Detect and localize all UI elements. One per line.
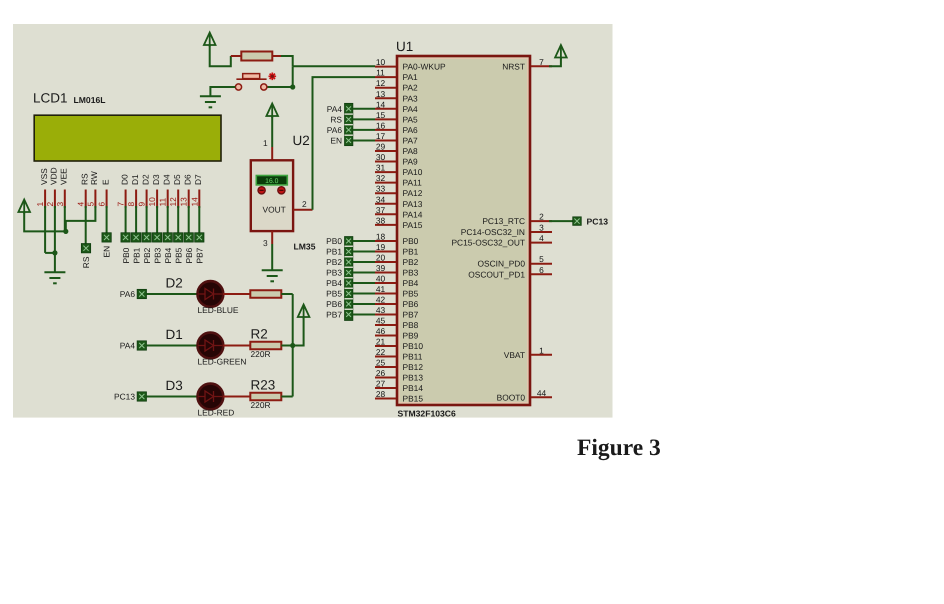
svg-text:LED-BLUE: LED-BLUE (198, 305, 239, 315)
wire arrow to VEE junction (24, 212, 66, 231)
value 220R (251, 349, 271, 359)
svg-text:38: 38 (376, 215, 386, 225)
svg-text:31: 31 (376, 163, 386, 173)
U1 pin 18 PB0 (375, 232, 419, 247)
svg-text:7: 7 (116, 202, 126, 207)
svg-text:PB6: PB6 (184, 247, 194, 263)
wire D2 down (146, 206, 148, 233)
svg-text:PA6: PA6 (327, 125, 343, 135)
svg-text:16.0: 16.0 (265, 178, 278, 185)
wire D0 down (125, 206, 127, 233)
wire VEE down (64, 206, 66, 231)
label R2 (251, 327, 268, 342)
svg-text:1: 1 (35, 202, 45, 207)
wire PB7 to U1 (353, 314, 375, 316)
svg-text:PB7: PB7 (403, 310, 419, 320)
power arrow VDD (LCD) (18, 200, 30, 215)
wire PA0 net to U1 pin 10 (293, 65, 375, 67)
svg-text:PB5: PB5 (326, 289, 342, 299)
label D3 (166, 378, 183, 393)
LCD pin label D1 (130, 174, 140, 185)
LED D2 (198, 281, 224, 307)
LCD pin 1 VSS stub (44, 190, 46, 209)
svg-text:22: 22 (376, 347, 386, 357)
LCD pin 5 RW stub (94, 190, 96, 209)
U1 pin 45 PB8 (375, 316, 419, 331)
svg-text:EN: EN (330, 135, 342, 145)
U1 pin 40 PB4 (375, 274, 419, 289)
svg-text:46: 46 (376, 326, 386, 336)
svg-text:PB14: PB14 (403, 383, 424, 393)
wire PB3 to U1 (353, 272, 375, 274)
svg-text:220R: 220R (251, 349, 271, 359)
label PA6 (terminal) (120, 289, 136, 299)
wire LED to resistor (223, 345, 250, 347)
svg-text:12: 12 (376, 78, 386, 88)
pin number 3 (U2) (263, 238, 268, 248)
U1 pin 16 PA6 (375, 120, 418, 135)
resistor R1 (pull-up) (241, 52, 272, 61)
svg-text:16: 16 (376, 120, 386, 130)
U1 pin 37 PA14 (375, 205, 423, 220)
label PB7 (strip) (326, 310, 342, 320)
power arrow (NRST) (555, 45, 567, 60)
svg-text:OSCIN_PD0: OSCIN_PD0 (478, 259, 526, 269)
svg-text:STM32F103C6: STM32F103C6 (398, 409, 456, 419)
wire button right contact (267, 86, 293, 88)
U2 knobs (258, 187, 285, 194)
LCD pin 11 D4 stub (167, 190, 169, 209)
LED D3 (198, 384, 224, 410)
svg-text:PB0: PB0 (403, 236, 419, 246)
U1 pin 3 PC14-OSC32_IN (461, 223, 552, 238)
label PB0 (strip) (326, 236, 342, 246)
wire NRST to power arrow (549, 58, 561, 67)
svg-text:D1: D1 (130, 174, 140, 185)
LCD pin label RS (80, 173, 90, 185)
U1 pin 33 PA12 (375, 184, 423, 199)
svg-text:34: 34 (376, 194, 386, 204)
svg-text:2: 2 (45, 202, 55, 207)
U1 label (396, 39, 413, 54)
LCD pin number 3 (55, 202, 65, 207)
LCD pin label D7 (193, 174, 203, 185)
svg-text:VSS: VSS (39, 168, 49, 185)
svg-text:PA10: PA10 (403, 167, 423, 177)
label RS (terminal) (81, 256, 91, 268)
wire D3 down (156, 206, 158, 233)
svg-text:4: 4 (76, 202, 86, 207)
U1 pin 12 PA2 (375, 78, 418, 93)
svg-text:29: 29 (376, 142, 386, 152)
svg-text:PB2: PB2 (326, 257, 342, 267)
U2 label (293, 133, 310, 148)
wire PA0 net down to button (292, 66, 294, 87)
resistor R(blue) (250, 290, 281, 298)
svg-text:PB0: PB0 (121, 247, 131, 263)
power arrow (LM35) (266, 104, 278, 119)
wire PB1 to U1 (353, 251, 375, 253)
svg-text:10: 10 (147, 197, 157, 207)
svg-text:D7: D7 (193, 174, 203, 185)
label LED-BLUE (198, 305, 239, 315)
LM35 pin 3 stub (271, 231, 273, 244)
LCD pin 10 D3 stub (156, 190, 158, 209)
svg-text:PA5: PA5 (403, 114, 419, 124)
U1 pin 17 PA7 (375, 131, 418, 146)
LCD pin label D6 (183, 174, 193, 185)
svg-text:12: 12 (168, 197, 178, 207)
U1 pin 26 PB13 (375, 368, 423, 383)
LCD1 screen (34, 115, 221, 161)
svg-text:EN: EN (102, 246, 112, 258)
wire resistor to bus (281, 396, 292, 398)
svg-text:3: 3 (263, 238, 268, 248)
wire E down (106, 206, 108, 233)
LCD pin number 10 (147, 197, 157, 207)
wire RS to U1 (353, 118, 375, 120)
LCD pin label D4 (162, 174, 172, 185)
label PA4 (strip) (327, 104, 343, 114)
ground (button) (200, 96, 221, 107)
svg-text:U1: U1 (396, 39, 413, 54)
U1 pin 34 PA13 (375, 194, 423, 209)
ground (LCD supply) (44, 272, 65, 283)
svg-text:RS: RS (81, 256, 91, 268)
svg-text:PC15-OSC32_OUT: PC15-OSC32_OUT (451, 238, 525, 248)
wire LM35 pin1 (271, 116, 273, 147)
label PB4 (LCD data) (163, 247, 173, 263)
label PB7 (LCD data) (195, 247, 205, 263)
LED D1 (198, 333, 224, 359)
wire PA6 to LED D2 (147, 293, 198, 295)
svg-text:2: 2 (539, 212, 544, 222)
LM35 label (294, 242, 316, 252)
connector strip PA4/RS/PA6/EN (345, 103, 353, 145)
LM35 pin 1 stub (271, 147, 273, 160)
svg-text:11: 11 (376, 68, 385, 78)
terminal PB7 (LCD data) (195, 233, 204, 242)
svg-text:PB6: PB6 (326, 299, 342, 309)
svg-text:PB4: PB4 (326, 278, 342, 288)
svg-text:D2: D2 (166, 276, 183, 291)
LCD pin number 7 (116, 202, 126, 207)
svg-text:PA6: PA6 (120, 289, 136, 299)
svg-text:5: 5 (539, 254, 544, 264)
wire D4 down (167, 206, 169, 233)
svg-text:40: 40 (376, 274, 386, 284)
node VEE junction (63, 229, 68, 234)
wire VOUT to U1 PA1 (313, 77, 376, 210)
svg-text:R23: R23 (251, 378, 276, 393)
svg-text:28: 28 (376, 389, 386, 399)
wire resistor to bus (281, 345, 292, 347)
svg-text:D6: D6 (183, 174, 193, 185)
svg-text:45: 45 (376, 316, 386, 326)
wire PB6 to U1 (353, 303, 375, 305)
wire VSS down (44, 206, 46, 253)
label D2 (166, 276, 183, 291)
terminal PA6 (137, 289, 146, 298)
LCD pin label D3 (151, 174, 161, 185)
svg-text:PA1: PA1 (403, 72, 419, 82)
svg-text:PA13: PA13 (403, 199, 423, 209)
LCD pin number 8 (126, 202, 136, 207)
LCD pin number 4 (76, 202, 86, 207)
svg-text:PA4: PA4 (120, 340, 136, 350)
label PB4 (strip) (326, 278, 342, 288)
svg-text:2: 2 (302, 199, 307, 209)
U1 pin 41 PB5 (375, 284, 419, 299)
wire LED bus vertical (292, 294, 294, 397)
terminal PB0 (LCD data) (121, 233, 130, 242)
node LED bus junction (290, 343, 295, 348)
LCD pin label D0 (119, 174, 129, 185)
LCD pin label RW (89, 171, 99, 185)
svg-text:PA9: PA9 (403, 157, 419, 167)
svg-text:14: 14 (189, 197, 199, 207)
wire RS down (85, 206, 87, 244)
svg-text:32: 32 (376, 173, 386, 183)
wire D5 down (177, 206, 179, 233)
svg-text:PB6: PB6 (403, 299, 419, 309)
resistor R1 pin right (272, 55, 281, 57)
label D1 (166, 327, 183, 342)
wire PA4 to LED D1 (147, 345, 198, 347)
svg-text:PB11: PB11 (403, 352, 423, 362)
svg-text:PB3: PB3 (403, 268, 419, 278)
U1 pin 11 PA1 (375, 68, 418, 83)
resistor R1 pin left (231, 55, 242, 57)
wire PB5 to U1 (353, 293, 375, 295)
svg-text:33: 33 (376, 184, 386, 194)
svg-text:PB9: PB9 (403, 331, 419, 341)
wire junction to power arrow (293, 317, 304, 346)
resistor R2 (250, 342, 281, 350)
wire RW to VEE line (66, 206, 96, 231)
U1 pin 32 PA11 (375, 173, 422, 188)
U1 pin 39 PB3 (375, 263, 419, 278)
label PB2 (strip) (326, 257, 342, 267)
svg-text:4: 4 (539, 233, 544, 243)
label EN (terminal) (102, 246, 112, 258)
wire PB2 to U1 (353, 261, 375, 263)
LCD1 label (33, 91, 106, 106)
LCD pin number 1 (35, 202, 45, 207)
U1 pin 38 PA15 (375, 215, 423, 230)
LCD pin 13 D6 stub (188, 190, 190, 209)
svg-text:6: 6 (97, 202, 107, 207)
wire PC13 to LED D3 (147, 396, 198, 398)
svg-text:21: 21 (376, 337, 386, 347)
op U1 STM32F103C6 body (397, 56, 530, 405)
U1 pin 1 VBAT (504, 345, 552, 360)
svg-text:5: 5 (85, 202, 95, 207)
svg-text:U2: U2 (293, 133, 310, 148)
U1 pin 15 PA5 (375, 110, 418, 125)
LCD pin number 5 (85, 202, 95, 207)
svg-text:PB15: PB15 (403, 394, 424, 404)
U1 pin 42 PB6 (375, 295, 419, 310)
schematic background (13, 24, 613, 418)
svg-text:10: 10 (376, 57, 386, 67)
svg-text:PB2: PB2 (403, 257, 419, 267)
label PA6 (strip) (327, 125, 343, 135)
svg-text:PB4: PB4 (403, 278, 419, 288)
wire VSS to VDD node (45, 252, 55, 254)
svg-text:13: 13 (179, 197, 189, 207)
svg-text:14: 14 (376, 99, 386, 109)
LCD pin 14 D7 stub (198, 190, 200, 209)
LCD pin label E (100, 179, 110, 185)
label PB5 (strip) (326, 289, 342, 299)
LCD pin number 9 (137, 202, 147, 207)
svg-text:1: 1 (539, 345, 544, 355)
svg-text:44: 44 (537, 388, 547, 398)
svg-text:D4: D4 (162, 174, 172, 185)
pin number 2 (U2) (302, 199, 307, 209)
wire arrow to resistor R1 (210, 45, 231, 66)
LCD pin 7 D0 stub (125, 190, 127, 209)
LCD pin label VDD (49, 167, 59, 185)
svg-text:PA2: PA2 (403, 83, 419, 93)
U1 pin 20 PB2 (375, 253, 419, 268)
U1 pin 4 PC15-OSC32_OUT (451, 233, 552, 248)
svg-text:Figure 3: Figure 3 (577, 435, 661, 461)
svg-text:PC13: PC13 (114, 391, 135, 401)
svg-text:RW: RW (89, 171, 99, 185)
svg-text:D2: D2 (140, 174, 150, 185)
svg-text:19: 19 (376, 242, 386, 252)
label PB6 (strip) (326, 299, 342, 309)
svg-text:LM016L: LM016L (74, 95, 106, 105)
svg-text:PB1: PB1 (326, 247, 342, 257)
svg-text:D5: D5 (172, 174, 182, 185)
svg-text:15: 15 (376, 110, 386, 120)
svg-text:D3: D3 (166, 378, 183, 393)
svg-text:PB5: PB5 (173, 247, 183, 263)
svg-text:RS: RS (330, 114, 342, 124)
label PB0 (LCD data) (121, 247, 131, 263)
svg-text:42: 42 (376, 295, 386, 305)
svg-text:3: 3 (539, 223, 544, 233)
U1 pin 22 PB11 (375, 347, 423, 362)
U1 pin 44 BOOT0 (497, 388, 552, 403)
LCD pin number 2 (45, 202, 55, 207)
label R23 (251, 378, 276, 393)
LCD pin label D5 (172, 174, 182, 185)
U1 pin 28 PB15 (375, 389, 423, 404)
label LED-RED (198, 408, 235, 418)
button actuator star (269, 73, 277, 81)
LCD pin 3 VEE stub (64, 190, 66, 209)
label PB3 (LCD data) (152, 247, 162, 263)
U1 pin 10 PA0-WKUP (375, 57, 446, 72)
svg-text:VBAT: VBAT (504, 350, 525, 360)
wire VDD down to ground (54, 206, 56, 272)
svg-text:PB5: PB5 (403, 289, 419, 299)
LCD pin number 13 (179, 197, 189, 207)
LCD pin 9 D2 stub (146, 190, 148, 209)
svg-text:6: 6 (539, 265, 544, 275)
label PB1 (LCD data) (131, 247, 141, 263)
U1 part name STM32F103C6 (398, 409, 456, 419)
svg-text:PA4: PA4 (327, 104, 343, 114)
svg-text:PA0-WKUP: PA0-WKUP (403, 62, 447, 72)
wire PA6 to U1 (353, 129, 375, 131)
svg-text:PB1: PB1 (131, 247, 141, 263)
node VSS/VDD junction (52, 250, 57, 255)
svg-text:LED-RED: LED-RED (198, 408, 235, 418)
U1 pin 30 PA9 (375, 152, 418, 167)
wire EN to U1 (353, 139, 375, 141)
svg-text:VDD: VDD (49, 167, 59, 185)
wire LED to resistor (223, 396, 250, 398)
svg-text:PB8: PB8 (403, 320, 419, 330)
svg-text:PC14-OSC32_IN: PC14-OSC32_IN (461, 227, 525, 237)
svg-text:PB3: PB3 (326, 268, 342, 278)
U1 pin 27 PB14 (375, 379, 423, 394)
svg-text:13: 13 (376, 89, 386, 99)
LCD pin 2 VDD stub (54, 190, 56, 209)
label PB2 (LCD data) (142, 247, 152, 263)
svg-text:PA4: PA4 (403, 104, 419, 114)
svg-text:41: 41 (376, 284, 386, 294)
svg-text:RS: RS (80, 173, 90, 185)
caption Figure 3 (577, 435, 661, 461)
svg-text:PB2: PB2 (142, 247, 152, 263)
label PC13 (terminal) (114, 391, 135, 401)
value 220R (251, 400, 271, 410)
LCD pin label VSS (39, 168, 49, 185)
U1 pin 7 NRST (502, 57, 552, 72)
svg-text:PB7: PB7 (326, 310, 342, 320)
label RS (strip) (330, 114, 342, 124)
U1 pin 31 PA10 (375, 163, 423, 178)
wire PA4 to U1 (353, 108, 375, 110)
U1 pin 13 PA3 (375, 89, 418, 104)
U1 pin 14 PA4 (375, 99, 418, 114)
terminal PC13 (137, 392, 146, 401)
wire D6 down (188, 206, 190, 233)
svg-text:18: 18 (376, 232, 386, 242)
svg-text:43: 43 (376, 305, 386, 315)
svg-text:30: 30 (376, 152, 386, 162)
LCD pin 8 D1 stub (135, 190, 137, 209)
wire D1 down (135, 206, 137, 233)
LCD pin label D2 (140, 174, 150, 185)
wire LM35 pin3 to ground (271, 244, 273, 270)
svg-text:D3: D3 (151, 174, 161, 185)
U1 pin 21 PB10 (375, 337, 423, 352)
LCD pin 6 E stub (106, 190, 108, 209)
U1 pin 19 PB1 (375, 242, 419, 257)
svg-text:PA3: PA3 (403, 93, 419, 103)
wire button left to ground (210, 87, 235, 96)
svg-text:20: 20 (376, 253, 386, 263)
terminal PB1 (LCD data) (131, 233, 140, 242)
svg-text:PA7: PA7 (403, 135, 419, 145)
terminal RS (81, 244, 90, 253)
push-button (235, 74, 267, 91)
terminal PB4 (LCD data) (163, 233, 172, 242)
U1 pin 43 PB7 (375, 305, 419, 320)
wire LED to resistor (223, 293, 250, 295)
label PC13 (terminal) (587, 216, 609, 226)
label EN (strip) (330, 135, 342, 145)
U1 pin 25 PB12 (375, 358, 423, 373)
svg-text:PA12: PA12 (403, 188, 423, 198)
